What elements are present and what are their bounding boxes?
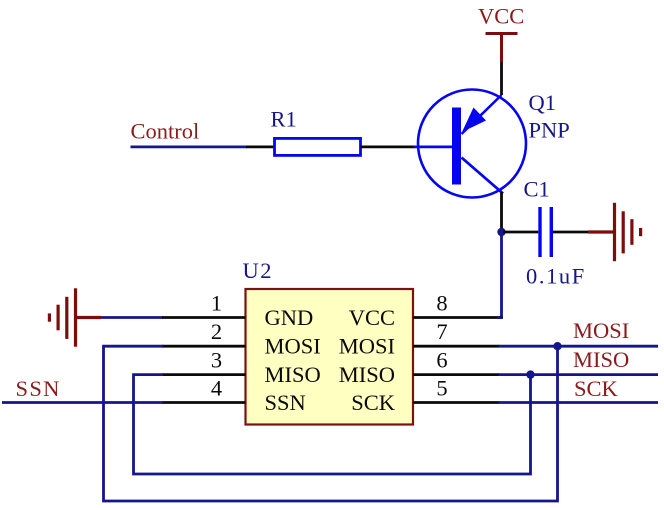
transistor Q1 collector pin wire bbox=[500, 192, 503, 232]
svg-text:1: 1 bbox=[211, 290, 222, 315]
svg-text:Control: Control bbox=[131, 119, 200, 144]
transistor Q1 base lead bbox=[413, 145, 454, 148]
wire MISO loop pin3 to pin6 bbox=[134, 375, 531, 474]
transistor Q1 collector line bbox=[462, 158, 504, 194]
pin 3 bbox=[162, 373, 246, 376]
junction dot node VCC/C1 bbox=[497, 228, 505, 236]
svg-text:MOSI: MOSI bbox=[339, 334, 395, 359]
pin 7 bbox=[413, 345, 500, 348]
svg-text:MISO: MISO bbox=[265, 362, 321, 387]
transistor Q1 emitter arrow (PNP) bbox=[462, 108, 486, 133]
svg-text:MOSI: MOSI bbox=[573, 318, 629, 343]
svg-text:SSN: SSN bbox=[16, 376, 61, 401]
svg-text:MOSI: MOSI bbox=[265, 334, 321, 359]
svg-text:2: 2 bbox=[211, 319, 222, 344]
svg-text:4: 4 bbox=[211, 375, 222, 400]
transistor Q1 base bar bbox=[452, 108, 461, 185]
ground symbol right bbox=[588, 203, 641, 261]
ground symbol left bbox=[49, 288, 101, 346]
svg-text:GND: GND bbox=[265, 305, 314, 330]
svg-text:3: 3 bbox=[211, 347, 222, 372]
wire VCC to Q1 emitter pin bbox=[500, 62, 503, 95]
resistor R1 right pin bbox=[361, 145, 414, 148]
wire Control net bbox=[131, 145, 248, 148]
svg-text:SSN: SSN bbox=[265, 390, 306, 415]
capacitor C1 right pin bbox=[553, 231, 588, 234]
svg-text:5: 5 bbox=[436, 375, 447, 400]
svg-text:MISO: MISO bbox=[573, 347, 629, 372]
svg-text:C1: C1 bbox=[524, 177, 550, 202]
transistor Q1 circle bbox=[418, 90, 526, 198]
capacitor C1 plates bbox=[540, 207, 551, 257]
wire SSN net bbox=[2, 401, 163, 404]
power port VCC bar symbol bbox=[486, 34, 518, 63]
svg-text:R1: R1 bbox=[271, 107, 297, 132]
svg-text:0.1uF: 0.1uF bbox=[526, 264, 586, 289]
wire junction down to pin 8 corner bbox=[500, 232, 503, 318]
wire pin 8 to collector junction (vertical riser) bbox=[497, 316, 502, 319]
svg-text:SCK: SCK bbox=[351, 390, 396, 415]
svg-text:7: 7 bbox=[436, 319, 447, 344]
wire MOSI loop pin2 to pin7 bbox=[104, 346, 558, 501]
pin 2 bbox=[162, 345, 246, 348]
pin 4 bbox=[162, 401, 246, 404]
IC U2 body bbox=[246, 289, 414, 425]
svg-text:Q1: Q1 bbox=[529, 90, 557, 115]
svg-text:MISO: MISO bbox=[339, 362, 395, 387]
svg-text:U2: U2 bbox=[243, 258, 274, 283]
wire MISO net right bbox=[499, 373, 659, 376]
wire GND to pin 1 bbox=[101, 316, 163, 319]
svg-text:PNP: PNP bbox=[529, 118, 570, 143]
svg-text:VCC: VCC bbox=[478, 4, 524, 29]
svg-text:VCC: VCC bbox=[349, 305, 395, 330]
resistor R1 body bbox=[275, 138, 361, 155]
wire MOSI net right bbox=[499, 345, 659, 348]
transistor Q1 emitter line bbox=[462, 95, 502, 134]
pin 8 bbox=[413, 316, 503, 319]
pin 1 bbox=[162, 316, 246, 319]
svg-text:6: 6 bbox=[436, 347, 447, 372]
junction dot MOSI bbox=[553, 342, 561, 350]
junction dot MISO bbox=[526, 370, 534, 378]
pin 5 bbox=[413, 401, 500, 404]
capacitor C1 left pin bbox=[503, 231, 538, 234]
wire SCK net right bbox=[499, 401, 659, 404]
resistor R1 left pin bbox=[246, 145, 275, 148]
pin 6 bbox=[413, 373, 500, 376]
svg-text:8: 8 bbox=[436, 290, 447, 315]
svg-text:SCK: SCK bbox=[574, 376, 619, 401]
